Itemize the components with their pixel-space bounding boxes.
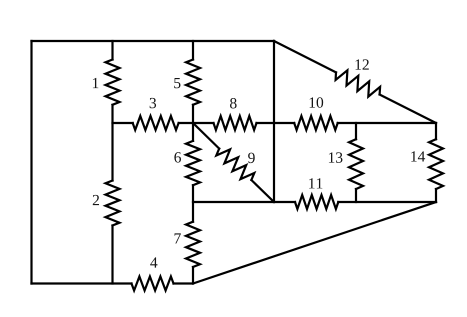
wire M stub2 [179,122,214,124]
resistor R6 [186,141,200,185]
label 10 [310,97,324,107]
label 3 [150,98,156,108]
wire B bottom stub [192,267,194,284]
resistor R8 [214,116,257,130]
wire D top stub [355,123,357,139]
wire diagonal9 lower [251,180,274,202]
resistor R10 [294,116,338,130]
wire B stub3 [192,185,194,222]
label 4 [150,257,157,267]
wire A bottom [111,226,113,284]
label 2 [93,195,99,205]
resistor R1 [106,60,120,105]
wire N stub1 [193,201,295,203]
resistor R11 [295,195,338,209]
wire B stub2 [192,105,194,141]
wire top [32,40,275,42]
resistor R5 [186,60,200,105]
resistor R7 [186,222,200,267]
label 5 [174,78,180,88]
wire N stub2 [338,201,436,203]
wire bottom right segment [174,282,194,284]
label 1 [93,78,98,88]
wire E bottom stub [435,189,437,202]
label 11 [309,178,322,188]
resistor R2 [106,181,120,226]
wire diagonal12 lower [380,95,436,124]
resistor R12 [336,70,381,96]
label 9 [248,153,255,163]
wire A top stub [111,41,113,60]
wire A middle [111,105,113,181]
resistor R14 [429,139,443,189]
label 8 [230,98,237,108]
wire E top stub [435,123,437,139]
wire diagonal12 upper [274,41,336,72]
wire B top stub [192,41,194,60]
label 6 [174,152,181,162]
label 14 [411,151,425,161]
resistor R3 [133,116,179,130]
label 12 [356,59,369,69]
resistor R4 [132,277,174,291]
wire M stub1 [113,122,133,124]
wire bottom diagonal [193,202,436,284]
wire bottom left segment [32,282,132,284]
wire D bottom stub [355,189,357,202]
wire M stub3 [257,122,295,124]
label 13 [329,152,343,162]
resistor R13 [349,139,363,189]
resistor R9 [216,149,254,180]
label 7 [175,233,181,243]
wire M stub4 [338,122,436,124]
wire left [30,41,32,284]
wire C vertical [273,41,275,202]
wire diagonal9 upper [193,123,219,149]
